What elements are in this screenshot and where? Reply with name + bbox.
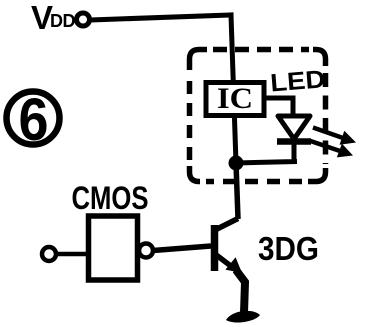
- svg-text:LED: LED: [269, 65, 326, 97]
- wire CMOS output to base: [153, 246, 211, 251]
- svg-text:CMOS: CMOS: [72, 180, 149, 216]
- wire vertical drop to junction: [231, 15, 236, 163]
- LED label: [269, 65, 326, 97]
- wire junction to transistor collector: [236, 163, 238, 219]
- wire emitter to ground: [236, 270, 245, 313]
- ground: [226, 311, 260, 323]
- CMOS gate label: [72, 180, 149, 216]
- transistor Q1 collector lead: [216, 219, 238, 230]
- svg-text:6: 6: [19, 86, 49, 153]
- transistor type label 3DG: [258, 230, 319, 267]
- svg-text:3DG: 3DG: [258, 230, 319, 267]
- figure label 6: [7, 86, 60, 153]
- transistor Q1 emitter lead with arrow: [215, 254, 242, 273]
- CMOS gate box: [89, 216, 138, 280]
- LED D1: [277, 116, 311, 142]
- wire IC output to LED anode: [264, 98, 293, 116]
- transistor Q1 base bar: [211, 225, 219, 271]
- svg-text:IC: IC: [217, 82, 253, 115]
- svg-text:DD: DD: [50, 11, 75, 31]
- CMOS output bubble: [139, 244, 153, 258]
- junction node dot: [229, 156, 244, 171]
- IC U1 box: [206, 82, 264, 116]
- wire LED cathode to junction: [236, 141, 297, 163]
- input terminal: [42, 247, 56, 261]
- LED emission arrow 2: [309, 141, 353, 158]
- wire input terminal to CMOS: [56, 252, 88, 257]
- dashed enclosure (module boundary): [190, 50, 326, 182]
- power VDD label: [31, 0, 75, 36]
- wire VDD to collector net (top horizontal): [90, 15, 231, 20]
- LED emission arrow 1: [313, 128, 356, 145]
- power VDD terminal: [77, 13, 90, 26]
